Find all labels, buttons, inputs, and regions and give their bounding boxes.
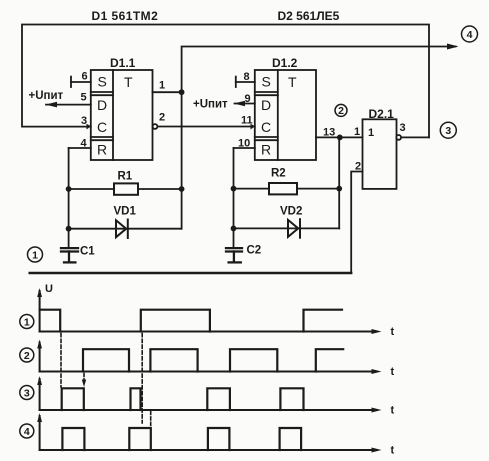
- timing circle 2: [20, 348, 34, 362]
- node dot VD1 left: [66, 226, 72, 232]
- arrowhead node 4 output: [447, 44, 459, 50]
- svg-text:D: D: [261, 97, 271, 113]
- svg-text:R2: R2: [271, 168, 286, 180]
- wire vertical bus x339: [338, 137, 340, 228]
- wire vertical R branch D1.1: [68, 148, 70, 247]
- resistor R1: [114, 183, 138, 194]
- timing axis row2: [37, 340, 381, 375]
- D1.2 inner column divider: [277, 70, 279, 160]
- svg-text:D2.1: D2.1: [369, 107, 395, 121]
- svg-text:t: t: [391, 445, 395, 457]
- svg-text:t: t: [391, 366, 395, 378]
- svg-text:t: t: [391, 405, 395, 417]
- timing circle 4: [20, 424, 34, 438]
- pin 10 wire: [234, 147, 255, 149]
- D1.1 inner column divider: [112, 70, 114, 160]
- pin 6 wire with tick: [71, 77, 91, 87]
- timing axis row1: [37, 288, 381, 334]
- svg-text:T: T: [288, 74, 297, 90]
- svg-text:D1.1: D1.1: [110, 56, 136, 70]
- timing axis row3: [37, 376, 381, 413]
- gate D2.1 box: [363, 119, 397, 189]
- waveform row4: [62, 428, 301, 450]
- diode VD1: [116, 220, 128, 239]
- svg-text:VD1: VD1: [114, 206, 137, 218]
- svg-text:R1: R1: [118, 171, 133, 183]
- svg-text:D2 561ЛЕ5: D2 561ЛЕ5: [278, 9, 340, 23]
- svg-text:10: 10: [238, 138, 250, 150]
- dashed guide arrow at x84: [82, 374, 86, 388]
- svg-text:6: 6: [82, 71, 88, 83]
- diode VD2: [288, 219, 300, 238]
- wire VD2 row: [234, 227, 340, 229]
- pin 8 wire with tick: [236, 77, 255, 87]
- waveform row3: [62, 388, 304, 410]
- wire R1 row: [69, 188, 182, 190]
- dashed guide at x61: [60, 334, 62, 388]
- op box D1.1 outer: [91, 70, 153, 160]
- D1.1 DC box top: [91, 94, 113, 96]
- node circle 1: [28, 247, 43, 262]
- D1.2 DC box bottom: [255, 136, 278, 138]
- svg-text:11: 11: [241, 115, 253, 127]
- dashed guide at x143.5: [141, 334, 143, 424]
- svg-text:U: U: [45, 283, 53, 295]
- svg-text:R: R: [261, 142, 271, 158]
- pin 5 wire: [46, 104, 91, 106]
- svg-text:D1 561ТМ2: D1 561ТМ2: [92, 9, 159, 23]
- gate D2.1 output wire: [401, 136, 429, 138]
- svg-text:4: 4: [81, 138, 88, 150]
- node dot R1 left: [66, 186, 72, 192]
- svg-text:C1: C1: [80, 246, 95, 258]
- node circle 2: [335, 104, 347, 116]
- svg-text:3: 3: [400, 122, 406, 134]
- svg-text:2: 2: [159, 112, 165, 124]
- pin 9 arrowhead +Upit: [234, 101, 245, 107]
- timing circle 3: [20, 386, 34, 400]
- svg-text:1: 1: [24, 316, 30, 328]
- wire R2 row: [234, 188, 340, 190]
- pin 5 arrowhead +Upit: [45, 102, 57, 108]
- svg-text:13: 13: [323, 127, 335, 139]
- pin 4 wire: [69, 147, 91, 149]
- D1.2 DC box top: [255, 94, 278, 96]
- pin 2 wire to D1.2 C input: [157, 126, 254, 128]
- svg-text:R: R: [97, 142, 107, 158]
- svg-text:D: D: [97, 97, 107, 113]
- svg-text:2: 2: [338, 105, 344, 117]
- D1.2 R box top: [255, 139, 278, 141]
- timing circle 1: [20, 315, 34, 329]
- node dot R2 left: [231, 186, 237, 192]
- capacitor C1: [61, 248, 78, 262]
- svg-text:1: 1: [368, 127, 374, 139]
- svg-text:8: 8: [244, 71, 250, 83]
- node circle 3: [440, 122, 456, 138]
- svg-text:1: 1: [32, 249, 38, 261]
- D1.1 R box top: [91, 139, 113, 141]
- op box D1.2 outer: [255, 70, 316, 160]
- wire vertical R branch D1.2: [233, 148, 235, 248]
- D1.1 S box bottom: [91, 91, 113, 93]
- svg-text:S: S: [98, 74, 107, 90]
- svg-text:S: S: [262, 74, 271, 90]
- svg-text:9: 9: [245, 93, 251, 105]
- svg-text:3: 3: [81, 115, 87, 127]
- svg-text:+Uпит: +Uпит: [29, 90, 64, 102]
- svg-text:C2: C2: [247, 245, 262, 257]
- svg-text:3: 3: [445, 125, 451, 137]
- waveform row1: [40, 310, 342, 332]
- gate D2.1 output bubble: [396, 135, 401, 140]
- pin 3 dynamic input mark: [87, 124, 92, 130]
- pin 11 dynamic input mark: [251, 124, 256, 130]
- wire node4 from pin1 junction to right arrow: [182, 47, 456, 93]
- resistor R2: [269, 183, 297, 194]
- svg-text:5: 5: [81, 92, 87, 104]
- pin 9 wire: [235, 103, 255, 105]
- wire top feedback from D2.1 output to D1.1 C input: [22, 25, 429, 138]
- wire VD1 row: [69, 228, 182, 230]
- svg-text:4: 4: [467, 29, 473, 41]
- svg-text:+Uпит: +Uпит: [193, 99, 228, 111]
- svg-text:2: 2: [355, 161, 361, 173]
- timing axis row4: [37, 413, 381, 453]
- gate D2.1 pin2 wire: [351, 172, 362, 274]
- wire bottom rail: [30, 272, 352, 274]
- capacitor C2: [226, 248, 242, 262]
- node dot R1 right: [179, 186, 185, 192]
- node circle 4: [462, 26, 478, 42]
- waveform row2: [83, 349, 343, 371]
- pin 13 output wire: [316, 136, 363, 138]
- node pin1 junction dot: [179, 89, 185, 95]
- wire vertical bus x182: [181, 92, 183, 229]
- svg-text:1: 1: [354, 126, 360, 138]
- node dot VD2 left: [231, 226, 237, 232]
- pin 2 inversion bubble: [153, 124, 158, 129]
- svg-text:D1.2: D1.2: [272, 56, 298, 70]
- svg-text:3: 3: [24, 387, 30, 399]
- D1.1 DC box bottom: [91, 136, 113, 138]
- svg-text:t: t: [391, 326, 395, 338]
- svg-text:C: C: [97, 119, 107, 135]
- svg-text:2: 2: [24, 350, 30, 362]
- dashed guide at x150.7: [150, 412, 152, 427]
- svg-text:T: T: [124, 74, 133, 90]
- svg-text:C: C: [261, 119, 271, 135]
- svg-text:1: 1: [159, 80, 165, 92]
- svg-text:VD2: VD2: [280, 206, 302, 218]
- D1.2 S box bottom: [255, 91, 278, 93]
- node dot R2 right: [336, 186, 342, 192]
- node pin13 junction dot: [337, 135, 343, 141]
- pin 1 output wire: [153, 91, 182, 93]
- svg-text:4: 4: [24, 426, 30, 438]
